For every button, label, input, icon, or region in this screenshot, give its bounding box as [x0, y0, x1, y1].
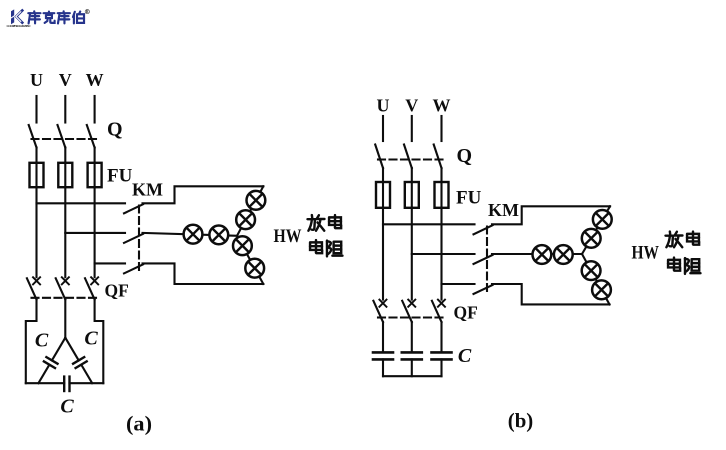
wire KM1 out to top rail — [143, 186, 264, 203]
wire KM3 out to bottom rail b — [492, 284, 610, 304]
label HW — [274, 227, 302, 247]
wire QF3 to delta right — [95, 300, 104, 384]
breaker QF linkage dashed b — [378, 316, 446, 318]
wire W incoming — [94, 96, 96, 123]
switch Q pole 2 blade b — [404, 145, 412, 169]
contactor KM pole 2 blade — [124, 234, 143, 243]
wire cap to bus b1 — [382, 359, 384, 376]
wire Q to FU pole 3 — [94, 148, 96, 163]
phase label U — [30, 70, 43, 90]
switch Q pole 1 blade — [29, 125, 37, 148]
lamp HL3 — [247, 191, 266, 210]
contactor KM pole 3 blade — [124, 264, 143, 273]
wire lamp branch top diagonal b — [582, 206, 610, 254]
label C b — [458, 345, 472, 367]
wire W incoming b — [440, 116, 442, 141]
wire tap phase 1 to KM — [37, 202, 126, 204]
lamp HL2 — [209, 226, 228, 245]
capacitor C1 plates b — [373, 352, 393, 359]
svg-text:Q: Q — [457, 145, 473, 167]
label QF — [105, 281, 129, 301]
wire lamp branch top diagonal — [237, 186, 263, 236]
wire Q to FU b2 — [411, 168, 413, 182]
phase label U b — [377, 96, 390, 116]
svg-text:(b): (b) — [508, 409, 534, 433]
fuse FU2 b — [405, 182, 419, 208]
fuse FU3 — [88, 163, 102, 187]
switch Q pole 2 blade — [58, 125, 66, 148]
lamp HL1 b — [533, 245, 552, 264]
svg-text:W: W — [86, 70, 104, 90]
contactor KM pole 1 blade — [124, 204, 143, 213]
label KM b — [488, 200, 519, 220]
wire V incoming b — [411, 116, 413, 141]
wire U incoming — [35, 96, 37, 123]
wire KM2 out to lamps b — [492, 253, 582, 255]
svg-text:COOPER KUKEBO: COOPER KUKEBO — [7, 24, 32, 28]
svg-text:C: C — [458, 345, 472, 367]
svg-text:U: U — [30, 70, 43, 90]
lamp HL6 — [245, 259, 264, 278]
lamp HL3 b — [593, 210, 612, 229]
capacitor C left plates — [44, 357, 58, 368]
wire V incoming — [64, 96, 66, 123]
wire FU to QF b1 — [382, 208, 384, 300]
logo slogan tiny text — [7, 24, 32, 28]
switch Q pole 3 blade b — [434, 145, 442, 169]
wire tap phase 2 to KM — [65, 232, 125, 234]
label fangdian line1 b — [666, 232, 700, 248]
label C right — [84, 328, 98, 350]
capacitor C bottom plates — [64, 377, 69, 391]
wire FU to QF b2 — [411, 208, 413, 300]
svg-text:KM: KM — [132, 180, 163, 200]
svg-text:KM: KM — [488, 200, 519, 220]
wire KM1 out to top rail b — [492, 206, 610, 224]
fuse FU3 b — [435, 182, 449, 208]
lamp HL5 — [233, 236, 252, 255]
svg-text:QF: QF — [105, 281, 129, 301]
svg-text:C: C — [60, 396, 74, 418]
breaker QF pole 1 — [27, 277, 40, 299]
wire lamp branch bottom diagonal — [237, 236, 263, 284]
phase label V b — [405, 96, 418, 116]
breaker QF pole 1 b — [373, 300, 386, 322]
breaker QF pole 3 b — [432, 300, 445, 322]
svg-text:U: U — [377, 96, 390, 116]
capacitor C right plates — [73, 357, 87, 368]
wire star bus b — [383, 375, 442, 377]
wire FU to QF pole 2 — [64, 187, 66, 277]
logo text kukekubo — [28, 11, 84, 23]
label QF b — [454, 303, 478, 323]
wire QF1 to cap b — [382, 322, 384, 352]
label (a) — [126, 412, 152, 436]
svg-text:HW: HW — [632, 244, 660, 264]
lamp HL2 b — [554, 245, 573, 264]
svg-text:QF: QF — [454, 303, 478, 323]
lamp HL1 — [184, 225, 203, 244]
fuse FU1 — [30, 163, 44, 187]
wire lamp branch bottom diagonal b — [582, 254, 610, 304]
svg-text:W: W — [433, 96, 451, 116]
wire Q to FU b3 — [440, 168, 442, 182]
wire QF2 to delta apex — [64, 300, 66, 338]
breaker QF pole 2 — [56, 277, 69, 299]
label dianzu line2 — [310, 240, 342, 256]
phase label V — [59, 70, 72, 90]
label FU — [107, 166, 133, 187]
label HW b — [632, 244, 660, 264]
wire delta bottom right — [70, 382, 104, 384]
contactor KM pole 3 blade b — [474, 285, 493, 294]
label Q b — [457, 145, 473, 167]
wire QF1 to delta left — [26, 300, 37, 384]
switch Q linkage dashed — [32, 138, 99, 140]
wire tap phase 3 to KM — [95, 262, 125, 264]
svg-text:V: V — [59, 70, 72, 90]
switch Q pole 1 blade b — [375, 145, 383, 169]
phase label W — [86, 70, 104, 90]
wire FU to QF pole 3 — [94, 187, 96, 277]
logo registered mark — [85, 10, 89, 15]
switch Q linkage dashed b — [378, 158, 445, 160]
wire FU to QF pole 1 — [35, 187, 37, 277]
wire cap to bus b2 — [411, 359, 413, 376]
breaker QF pole 2 b — [402, 300, 415, 322]
wire delta bottom left — [26, 382, 64, 384]
contactor KM pole 1 blade b — [474, 225, 493, 234]
breaker QF pole 3 — [85, 277, 98, 299]
contactor KM linkage dashed b — [486, 227, 488, 295]
label Q — [107, 119, 123, 141]
breaker QF linkage dashed — [32, 297, 100, 299]
capacitor C2 plates b — [402, 352, 422, 359]
contactor KM pole 2 blade b — [474, 255, 493, 264]
wire cap to bus b3 — [440, 359, 442, 376]
wire U incoming b — [382, 116, 384, 141]
label C left — [35, 330, 49, 352]
svg-text:FU: FU — [456, 188, 482, 209]
wire Q to FU pole 2 — [64, 148, 66, 163]
phase label W b — [433, 96, 451, 116]
logo icon K chevrons — [11, 9, 23, 24]
svg-text:V: V — [405, 96, 418, 116]
switch Q pole 3 blade — [87, 125, 95, 148]
lamp HL4 — [236, 210, 255, 229]
label dianzu line2 b — [668, 258, 700, 274]
wire delta right diagonal — [65, 338, 92, 384]
fuse FU2 — [58, 163, 72, 187]
contactor KM linkage dashed — [138, 206, 140, 274]
svg-text:C: C — [35, 330, 49, 352]
label (b) — [508, 409, 534, 433]
svg-text:HW: HW — [274, 227, 302, 247]
fuse FU1 b — [376, 182, 390, 208]
label C bottom — [60, 396, 74, 418]
wire tap phase 1 to KM b — [383, 223, 475, 225]
svg-text:C: C — [84, 328, 98, 350]
wire FU to QF b3 — [440, 208, 442, 300]
label fangdian line1 — [308, 215, 342, 231]
label KM — [132, 180, 163, 200]
capacitor C3 plates b — [432, 352, 452, 359]
lamp HL6 b — [592, 280, 611, 299]
wire QF2 to cap b — [411, 322, 413, 352]
wire KM3 out to bottom rail — [143, 263, 264, 284]
svg-text:Q: Q — [107, 119, 123, 141]
wire delta left diagonal — [38, 338, 65, 384]
label FU b — [456, 188, 482, 209]
wire tap phase 2 to KM b — [412, 253, 475, 255]
svg-text:FU: FU — [107, 166, 133, 187]
wire tap phase 3 to KM b — [442, 283, 475, 285]
svg-text:R: R — [86, 10, 89, 14]
wire Q to FU b1 — [382, 168, 384, 182]
wire Q to FU pole 1 — [35, 148, 37, 163]
lamp HL5 b — [582, 261, 601, 280]
svg-text:(a): (a) — [126, 412, 152, 436]
lamp HL4 b — [582, 229, 601, 248]
wire KM2 out to lamps — [143, 233, 238, 236]
wire QF3 to cap b — [440, 322, 442, 352]
